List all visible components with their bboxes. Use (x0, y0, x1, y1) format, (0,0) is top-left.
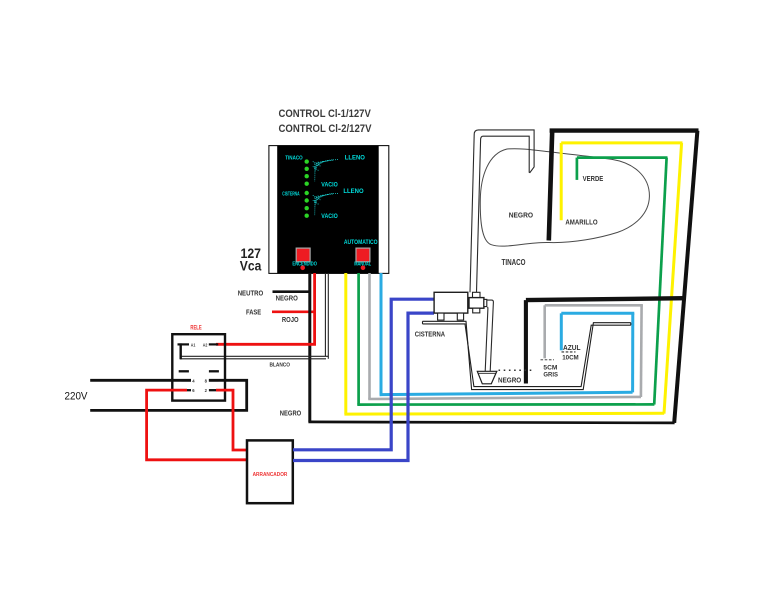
wire amarillo right riser (664, 143, 682, 414)
cisterna tank walls (423, 321, 631, 389)
button manual SW2 (356, 248, 370, 262)
pilot lamp manual (361, 266, 366, 271)
wire azul claro right riser cisterna (631, 313, 634, 392)
svg-text:CONTROL Cl-2/127V: CONTROL Cl-2/127V (279, 123, 373, 135)
LED column D5-D8 cisterna (305, 191, 309, 218)
wire azul claro from control (380, 273, 383, 395)
wire gris from control (368, 273, 371, 399)
wire azul B2 pump to arrancador (293, 313, 434, 460)
relay contact bar left (179, 370, 189, 372)
wire azul claro bottom run (380, 392, 633, 394)
wire amarillo bottom run (344, 412, 664, 416)
svg-text:VACIO: VACIO (321, 213, 338, 220)
svg-text:CISTERNA: CISTERNA (282, 191, 299, 197)
svg-text:NEGRO: NEGRO (280, 408, 301, 417)
wire 220V loop right (90, 380, 247, 410)
svg-text:A2: A2 (203, 342, 208, 347)
pump coupling nose (484, 299, 487, 306)
wire rojo fase (272, 310, 315, 313)
svg-text:NEUTRO: NEUTRO (238, 289, 264, 298)
title label CONTROL (279, 108, 373, 135)
svg-text:AMARILLO: AMARILLO (565, 218, 597, 227)
LED column D1-D4 tinaco (305, 159, 309, 185)
wire negro neutro (273, 290, 311, 293)
relay pin 8 bar (209, 379, 219, 381)
pump P1 foot left (438, 313, 444, 320)
electrode azul cisterna (560, 313, 563, 350)
relay pin 6 bar (182, 389, 192, 391)
electrode gris cisterna (543, 305, 546, 358)
svg-text:LLENO: LLENO (343, 188, 363, 195)
electrode verde tinaco (576, 158, 579, 180)
wire rojo from control to relay A2 (216, 273, 315, 344)
wire negro from control to bottom loop (308, 273, 311, 422)
svg-text:8: 8 (205, 378, 208, 383)
svg-text:RELE: RELE (190, 325, 201, 331)
svg-text:TINACO: TINACO (285, 156, 303, 162)
wire negro bottom run (308, 422, 674, 423)
svg-text:Vca: Vca (240, 257, 262, 273)
relay A1 stub to blanco (179, 343, 181, 359)
pipe pump to tinaco (470, 130, 534, 292)
pichancha funnel (477, 371, 497, 384)
wire verde top run (577, 156, 668, 159)
relay K1 body (172, 334, 225, 400)
wire gris bottom run (368, 397, 641, 399)
wire rojo relay pin6 to arrancador (147, 390, 248, 460)
pump coupling base (473, 308, 480, 313)
wire negro right riser (674, 131, 697, 423)
pilot lamp encendido (300, 266, 305, 271)
relay pin 4 bar (182, 379, 192, 381)
svg-text:4: 4 (192, 378, 195, 383)
svg-text:6: 6 (192, 388, 195, 393)
pump coupling (469, 298, 484, 309)
wire gris right riser cisterna (640, 305, 643, 397)
svg-text:ENCENDIDO: ENCENDIDO (292, 261, 317, 267)
button encendido SW1 (296, 248, 310, 262)
wire gris top run cisterna (545, 304, 643, 307)
svg-text:AUTOMATICO: AUTOMATICO (344, 239, 378, 246)
arrancador M1 body (247, 440, 293, 503)
svg-text:NEGRO: NEGRO (498, 376, 521, 385)
svg-text:VERDE: VERDE (583, 174, 604, 183)
wire verde right riser (654, 158, 666, 405)
svg-text:NEGRO: NEGRO (276, 293, 299, 302)
electrode gris tip mark (541, 359, 555, 361)
svg-text:CONTROL Cl-1/127V: CONTROL Cl-1/127V (279, 108, 372, 120)
label 127 Vca (240, 245, 262, 273)
pipe pump to pichancha (485, 300, 493, 371)
wire verde from control (357, 273, 360, 405)
svg-text:CISTERNA: CISTERNA (415, 330, 446, 339)
pump P1 foot right (457, 313, 463, 320)
svg-text:NEGRO: NEGRO (509, 210, 534, 219)
svg-text:FASE: FASE (246, 308, 261, 317)
svg-text:ARRANCADOR: ARRANCADOR (253, 472, 288, 478)
level curve cisterna (313, 193, 338, 215)
pichancha inner line (479, 372, 496, 374)
wire negro cisterna top run (526, 298, 684, 300)
svg-text:ROJO: ROJO (282, 315, 299, 324)
svg-text:220V: 220V (65, 391, 89, 403)
svg-text:AZUL: AZUL (563, 343, 581, 352)
svg-text:A1: A1 (191, 342, 196, 347)
control unit U1 enclosure (269, 146, 389, 274)
electrode negro tinaco (549, 131, 552, 241)
svg-text:2: 2 (205, 388, 208, 393)
tinaco tank outline (480, 149, 649, 246)
relay terminal A2 (209, 343, 218, 345)
wire 220V line1 (90, 379, 191, 382)
dotted level line cisterna (499, 369, 534, 371)
wire negro top run (550, 128, 699, 132)
wire azul B1 pump to arrancador (293, 299, 434, 450)
svg-text:10CM: 10CM (562, 354, 579, 361)
relay terminal A1 (178, 343, 190, 345)
wire rojo relay pin2 to arrancador (216, 390, 248, 450)
wire blanco vertical pair (180, 273, 328, 359)
pump P1 body (434, 292, 468, 313)
svg-text:BLANCO: BLANCO (270, 363, 291, 369)
pump collar top (473, 292, 481, 297)
level curve tinaco (313, 160, 338, 182)
wire amarillo from control (344, 273, 347, 414)
svg-text:VACIO: VACIO (321, 182, 338, 189)
electrode negro cisterna (524, 300, 528, 383)
electrode azul tip mark (562, 351, 576, 353)
wire amarillo top run (561, 141, 682, 144)
wire verde bottom run (357, 403, 654, 406)
svg-text:LLENO: LLENO (345, 155, 365, 162)
relay contact bar right (209, 370, 219, 372)
electrode amarillo tinaco (560, 143, 563, 220)
svg-text:TINACO: TINACO (502, 258, 526, 267)
svg-text:GRIS: GRIS (543, 371, 558, 378)
wire azul claro top run cisterna (561, 312, 634, 315)
relay pin 2 bar (209, 389, 219, 391)
